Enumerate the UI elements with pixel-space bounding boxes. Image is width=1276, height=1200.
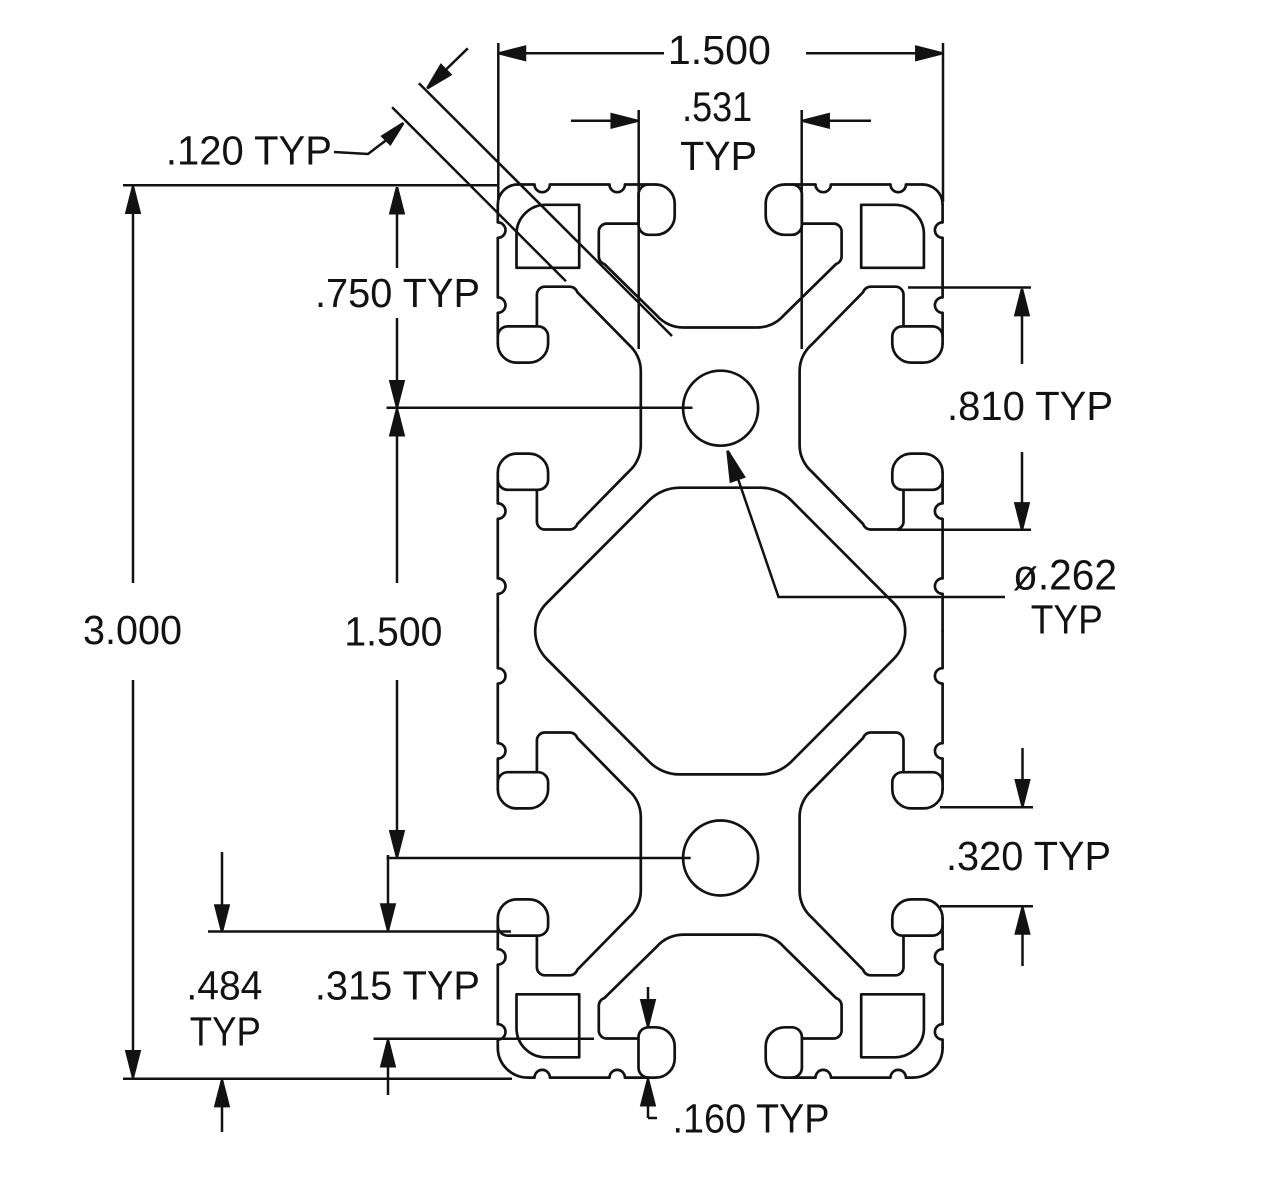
dimension .750 TYP: dim line and arrows [396, 189, 399, 268]
dimension .315 TYP: extension line and arrows [208, 930, 511, 933]
svg-text:.810 TYP: .810 TYP [947, 383, 1113, 429]
svg-text:.120 TYP: .120 TYP [166, 128, 332, 174]
dimension .484 TYP: arrows [215, 906, 228, 932]
svg-text:TYP: TYP [190, 1009, 261, 1055]
dimension .531 TYP: extension lines, dim lines, arrows [637, 110, 640, 349]
dimension 1.500 top: extension lines, dim line, arrows [497, 43, 500, 202]
svg-text:.531: .531 [682, 83, 752, 130]
outer corner arc bottom-right [913, 1048, 943, 1078]
svg-text:.484: .484 [186, 963, 262, 1009]
top T-slot with face lines and notches [518, 185, 923, 328]
dimension .810 TYP: extension lines, dim line, arrows [908, 286, 1031, 289]
dimension 3.000: extension lines, dim line, arrows [123, 184, 497, 187]
corner screw-boss square top-left [516, 205, 579, 268]
svg-text:TYP: TYP [680, 133, 757, 179]
central octagonal cavity [535, 488, 905, 775]
extrusion profile [498, 185, 943, 1078]
svg-text:1.500: 1.500 [668, 27, 771, 73]
bottom T-slot with face lines and notches [528, 935, 913, 1078]
lower access hole ø.262 [683, 821, 758, 896]
corner screw-boss square bottom-left [516, 994, 579, 1057]
left lower T-slot with face lines and notches [498, 631, 641, 1048]
dimension .320 TYP: extension lines and arrows [940, 806, 1033, 809]
right upper T-slot with face lines and notches [800, 205, 943, 632]
svg-text:.750 TYP: .750 TYP [315, 270, 480, 316]
dimension .120 TYP: web edge lines, arrows, leader [392, 107, 566, 281]
svg-text:3.000: 3.000 [83, 607, 182, 653]
left upper T-slot with face lines and notches [498, 205, 641, 632]
svg-text:.320 TYP: .320 TYP [946, 833, 1111, 879]
svg-text:ø.262: ø.262 [1013, 552, 1117, 600]
svg-text:.160 TYP: .160 TYP [673, 1096, 830, 1142]
right lower T-slot with face lines and notches [800, 631, 943, 1048]
corner screw-boss square top-right [861, 205, 924, 268]
leader for hole diameter ø.262 [729, 453, 1005, 598]
outer corner arc top-right [923, 185, 943, 205]
corner screw-boss square bottom-right [861, 994, 924, 1057]
hole centerline extension lines [387, 406, 693, 409]
dimension .160 TYP: arrows and stub [641, 1000, 654, 1026]
svg-text:.315 TYP: .315 TYP [315, 963, 480, 1009]
dimension 1.500 middle: dim line and arrows [396, 411, 399, 583]
dimensions [123, 43, 1033, 1132]
extension line at bottom groove level [374, 1037, 595, 1040]
upper access hole ø.262 [683, 371, 758, 446]
outer corner arc top-left [498, 185, 518, 205]
svg-text:1.500: 1.500 [344, 608, 442, 654]
outer corner arc bottom-left [498, 1048, 528, 1078]
svg-text:TYP: TYP [1031, 597, 1103, 643]
